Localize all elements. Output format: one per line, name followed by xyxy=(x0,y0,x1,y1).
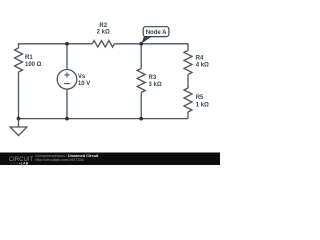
wire top horizontal right segment xyxy=(114,43,188,45)
resistor R3 xyxy=(137,69,162,93)
wire left vertical top stub xyxy=(18,43,20,48)
svg-text:R5: R5 xyxy=(196,95,204,101)
svg-text:2 kΩ: 2 kΩ xyxy=(97,30,110,36)
svg-text:Node A: Node A xyxy=(146,30,167,36)
CircuitLab logo xyxy=(9,157,34,165)
wire bottom horizontal xyxy=(19,118,189,120)
junction dot bottom Vs xyxy=(65,117,69,121)
wire Vs branch bottom stub xyxy=(66,89,68,119)
junction dot node A xyxy=(139,42,143,46)
svg-text:1 kΩ: 1 kΩ xyxy=(196,103,209,109)
svg-text:4 kΩ: 4 kΩ xyxy=(196,62,209,68)
svg-text:100 Ω: 100 Ω xyxy=(25,62,42,68)
svg-text:Vs: Vs xyxy=(78,74,86,80)
svg-text:3 kΩ: 3 kΩ xyxy=(149,82,162,88)
resistor R5 xyxy=(184,88,209,112)
svg-text:10 V: 10 V xyxy=(78,81,90,87)
wire right vertical bottom stub xyxy=(187,112,189,119)
junction dot top Vs xyxy=(65,42,69,46)
watermark bar xyxy=(0,153,220,166)
resistor R1 xyxy=(15,48,42,72)
svg-text:R3: R3 xyxy=(149,75,157,81)
svg-text:R2: R2 xyxy=(99,23,107,29)
svg-text:∿∿∿▪LAB: ∿∿∿▪LAB xyxy=(10,161,29,165)
junction dot bottom left xyxy=(17,117,21,121)
svg-text:R4: R4 xyxy=(196,55,204,61)
wire left vertical bottom segment xyxy=(18,72,20,119)
junction dot bottom R3 xyxy=(139,117,143,121)
resistor R2 xyxy=(92,23,114,47)
wire right vertical middle segment xyxy=(187,74,189,88)
wire right vertical top stub xyxy=(187,43,189,50)
voltage source Vs xyxy=(57,70,90,90)
wire node A branch stub xyxy=(140,44,142,69)
node A callout label xyxy=(141,27,169,44)
resistor R4 xyxy=(184,50,209,74)
wire top horizontal left segment xyxy=(19,43,93,45)
wire Vs branch top stub xyxy=(66,44,68,70)
ground xyxy=(10,119,27,136)
watermark credit text xyxy=(35,154,99,162)
svg-text:R1: R1 xyxy=(25,55,33,61)
wire R3 bottom stub xyxy=(140,93,142,119)
svg-text:http://circuitlab.com/c957356: http://circuitlab.com/c957356 xyxy=(35,158,83,162)
